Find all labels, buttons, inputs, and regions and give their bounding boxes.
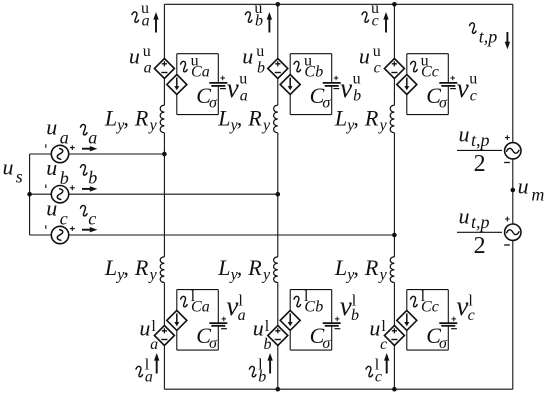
svg-text:u: u (373, 43, 381, 60)
svg-text:u: u (46, 155, 57, 180)
svg-text:σ: σ (209, 335, 218, 352)
svg-text:u: u (459, 203, 470, 228)
svg-text:m: m (531, 184, 544, 204)
label u_t,p/2 lower (fraction) (457, 203, 502, 259)
cell box upper a (177, 54, 219, 115)
node bottom bus / leg b (276, 387, 281, 392)
label L_y,R_y lower c (334, 255, 388, 284)
label u_b^u (242, 43, 265, 77)
svg-text:R: R (247, 255, 262, 280)
inductor L_y,R_y lower b (274, 257, 278, 283)
svg-text:u: u (469, 70, 477, 87)
svg-text:L: L (334, 105, 347, 130)
svg-text:b: b (255, 12, 263, 29)
top bus (164, 3, 512, 5)
svg-text:c: c (88, 208, 96, 228)
svg-text:c: c (372, 12, 379, 29)
wire phase c (30, 234, 395, 236)
svg-text:b: b (88, 168, 97, 188)
wire leg a (vertical) (163, 4, 165, 389)
cell box upper c (407, 54, 449, 115)
svg-text:L: L (217, 105, 230, 130)
label L_y,R_y upper c (334, 105, 388, 133)
svg-text:s: s (16, 167, 23, 187)
svg-text:y: y (378, 267, 388, 284)
label v_b^l (340, 291, 359, 324)
label C_sigma upper b (310, 83, 332, 111)
svg-text:u: u (143, 43, 151, 60)
svg-text:b: b (315, 299, 323, 316)
svg-text:L: L (334, 255, 347, 280)
source u_t,p/2 upper (504, 135, 521, 162)
svg-text:a: a (144, 60, 152, 77)
node top bus / leg c (392, 2, 397, 7)
svg-text:y: y (148, 117, 158, 134)
source u_t,p/2 lower (504, 217, 521, 245)
label v_c^u (457, 70, 478, 104)
label u_a^u (129, 43, 152, 77)
svg-text:b: b (351, 307, 359, 324)
svg-text:u: u (353, 70, 361, 87)
voltage source u_b^u (diamond) (268, 59, 288, 79)
svg-text:b: b (315, 64, 323, 81)
inductor L_y,R_y lower c (390, 257, 394, 283)
svg-text:,: , (123, 255, 128, 280)
label i_c^l and arrow (lower arm current) (366, 353, 389, 386)
current source i_Cc^l (diamond) (397, 310, 417, 330)
left bus (source star point) (29, 154, 31, 235)
svg-text:R: R (134, 255, 149, 280)
capacitor C_sigma upper c (439, 76, 457, 89)
capacitor C_sigma lower b (323, 317, 341, 329)
current source i_Cc^u (diamond) (397, 75, 417, 95)
svg-text:l: l (265, 318, 270, 335)
label i_a^l and arrow (lower arm current) (136, 353, 159, 386)
label i_c and arrow (81, 205, 98, 232)
svg-text:b: b (60, 168, 69, 188)
svg-text:a: a (238, 307, 246, 324)
label u_b (46, 155, 69, 188)
svg-text:u: u (3, 155, 14, 180)
source u_c (46, 225, 75, 243)
label i_t,p and arrow (470, 23, 511, 49)
wire phase b (30, 193, 278, 195)
svg-text:2: 2 (474, 233, 486, 259)
svg-text:v: v (457, 73, 469, 103)
label v_b^u (340, 70, 361, 104)
svg-text:c: c (60, 209, 68, 229)
svg-text:c: c (470, 88, 477, 105)
svg-text:R: R (364, 255, 379, 280)
label L_y,R_y lower a (104, 255, 158, 284)
svg-text:a: a (240, 88, 248, 105)
svg-text:,: , (237, 255, 243, 280)
svg-text:R: R (134, 105, 149, 130)
node phase b / leg b (276, 192, 281, 197)
svg-text:C: C (421, 299, 432, 316)
label i_a and arrow (81, 124, 98, 151)
label C_sigma upper c (426, 83, 448, 111)
svg-text:,: , (353, 105, 359, 130)
cell box lower c (407, 290, 449, 351)
label i_a^u and arrow (upper arm current) (132, 0, 159, 32)
label C_sigma lower c (426, 323, 448, 352)
svg-text:v: v (340, 291, 352, 321)
voltage source u_c^u (diamond) (384, 59, 404, 79)
label i_c^u and arrow (upper arm current) (362, 0, 389, 32)
current source i_Ca^l (diamond) (167, 310, 187, 330)
label i_Cc^l (411, 288, 439, 316)
svg-text:u: u (239, 70, 247, 87)
capacitor C_sigma upper a (209, 76, 227, 89)
label v_a^u (227, 70, 248, 104)
svg-text:a: a (145, 369, 153, 386)
label u_m (518, 174, 545, 205)
label i_Ca^u (181, 52, 210, 80)
svg-text:y: y (261, 267, 271, 284)
label v_c^l (456, 291, 474, 324)
label u_c^l (369, 315, 387, 353)
svg-text:v: v (340, 73, 352, 103)
label u_c (46, 196, 68, 229)
svg-text:u: u (139, 315, 150, 340)
svg-text:,: , (123, 105, 128, 130)
label i_b^u and arrow (upper arm current) (245, 0, 272, 32)
node bottom bus / leg c (392, 387, 397, 392)
svg-text:u: u (46, 196, 57, 221)
label i_Ca^l (181, 288, 210, 316)
svg-text:t,p: t,p (471, 130, 490, 150)
svg-text:y: y (261, 117, 271, 134)
svg-text:l: l (381, 318, 386, 335)
svg-text:a: a (60, 128, 69, 148)
svg-text:v: v (226, 291, 238, 321)
svg-text:C: C (421, 64, 432, 81)
svg-text:a: a (202, 299, 210, 316)
inductor L_y,R_y upper c (390, 105, 394, 133)
svg-text:σ: σ (439, 335, 448, 352)
svg-text:R: R (247, 105, 262, 130)
wire phase a (30, 153, 165, 155)
svg-text:σ: σ (439, 95, 448, 112)
label C_sigma upper a (196, 83, 218, 111)
voltage source u_c^l (diamond) (384, 326, 404, 346)
label C_sigma lower b (310, 323, 332, 352)
wire leg c (vertical) (393, 4, 395, 389)
cell box upper b (290, 54, 332, 115)
svg-text:v: v (456, 291, 468, 321)
svg-text:b: b (353, 88, 361, 105)
inductor L_y,R_y upper a (160, 105, 164, 133)
node phase a / leg a (162, 152, 167, 157)
svg-text:c: c (375, 369, 382, 386)
svg-text:u: u (459, 122, 470, 147)
current source i_Cb^l (diamond) (280, 310, 300, 330)
voltage source u_a^u (diamond) (154, 59, 174, 79)
svg-text:t,p: t,p (479, 26, 498, 46)
label v_a^l (226, 291, 245, 324)
svg-text:σ: σ (322, 95, 331, 112)
svg-text:y: y (148, 267, 158, 284)
svg-text:u: u (369, 315, 380, 340)
label u_a^l (139, 315, 158, 353)
label i_Cb^u (294, 52, 323, 80)
svg-text:c: c (432, 299, 439, 316)
voltage source u_a^l (diamond) (154, 326, 174, 346)
current source i_Cb^u (diamond) (280, 75, 300, 95)
label C_sigma lower a (196, 323, 218, 352)
svg-text:u: u (359, 44, 370, 69)
label L_y,R_y upper a (104, 105, 158, 133)
svg-text:L: L (104, 255, 117, 280)
label u_a (46, 115, 69, 148)
svg-text:b: b (257, 60, 265, 77)
svg-text:u: u (256, 43, 264, 60)
svg-text:y: y (378, 117, 388, 134)
label u_t,p/2 upper (fraction) (457, 122, 502, 178)
label u_b^l (253, 315, 272, 353)
svg-text:u: u (129, 44, 140, 69)
svg-text:c: c (374, 60, 381, 77)
current source i_Ca^u (diamond) (167, 75, 187, 95)
node top bus / leg b (276, 2, 281, 7)
cell box lower b (290, 290, 332, 351)
node: star point dot (27, 192, 32, 197)
svg-text:C: C (304, 64, 315, 81)
inductor L_y,R_y upper b (274, 105, 278, 133)
node phase c / leg c (392, 233, 397, 238)
svg-text:b: b (258, 369, 266, 386)
svg-text:,: , (353, 255, 359, 280)
cell box lower a (177, 290, 219, 351)
svg-text:c: c (468, 307, 475, 324)
source u_a (46, 144, 75, 162)
svg-text:,: , (237, 105, 243, 130)
label i_Cb^l (294, 288, 323, 316)
svg-text:l: l (151, 318, 156, 335)
svg-text:u: u (518, 174, 529, 199)
inductor L_y,R_y lower a (160, 257, 164, 283)
svg-text:C: C (191, 299, 202, 316)
wire right bus (512, 4, 514, 389)
capacitor C_sigma lower c (439, 317, 457, 329)
label i_b^l and arrow (lower arm current) (249, 353, 272, 386)
svg-text:t,p: t,p (471, 212, 490, 232)
svg-text:σ: σ (209, 95, 218, 112)
svg-text:L: L (217, 255, 230, 280)
svg-text:c: c (432, 64, 439, 81)
svg-text:b: b (264, 336, 272, 353)
source u_b (46, 185, 75, 203)
voltage source u_b^l (diamond) (268, 326, 288, 346)
svg-text:a: a (142, 12, 150, 29)
svg-text:a: a (150, 336, 158, 353)
svg-text:v: v (227, 73, 239, 103)
svg-text:C: C (191, 64, 202, 81)
label u_s (3, 155, 23, 187)
svg-text:c: c (380, 336, 387, 353)
capacitor C_sigma lower a (209, 317, 227, 329)
svg-text:2: 2 (474, 151, 486, 177)
label u_c^u (359, 43, 381, 77)
wire leg b (vertical) (277, 4, 279, 389)
label i_Cc^u (411, 52, 439, 80)
svg-text:σ: σ (322, 335, 331, 352)
svg-text:u: u (242, 44, 253, 69)
svg-text:L: L (104, 105, 117, 130)
svg-text:R: R (364, 105, 379, 130)
label i_b and arrow (81, 165, 98, 192)
svg-text:u: u (46, 115, 57, 140)
svg-text:a: a (202, 64, 210, 81)
capacitor C_sigma upper b (323, 76, 341, 89)
label L_y,R_y upper b (217, 105, 271, 133)
svg-text:u: u (253, 315, 264, 340)
svg-text:a: a (88, 127, 97, 147)
bottom bus (164, 388, 512, 390)
svg-text:C: C (304, 299, 315, 316)
label L_y,R_y lower b (217, 255, 271, 284)
node u_m (511, 188, 516, 193)
